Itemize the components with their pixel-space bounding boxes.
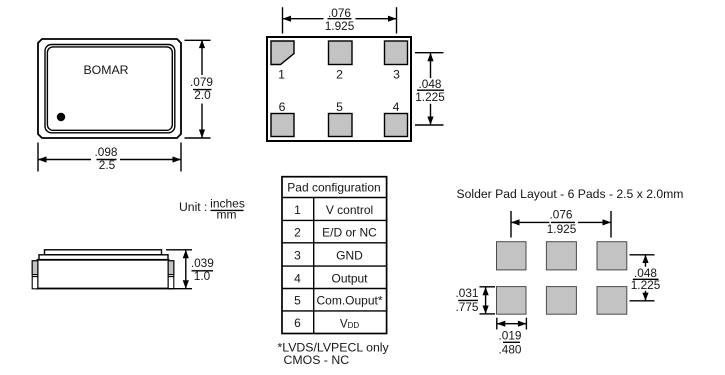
side view right castellation xyxy=(168,261,174,289)
dimension .079/2.0 (package height) xyxy=(185,40,213,138)
svg-text:.019: .019 xyxy=(499,329,522,343)
svg-text:1.925: 1.925 xyxy=(325,19,355,33)
svg-text:V control: V control xyxy=(326,203,373,217)
svg-text:6: 6 xyxy=(294,316,301,330)
svg-text:2.5: 2.5 xyxy=(99,158,116,172)
svg-text:2: 2 xyxy=(294,226,301,240)
svg-text:Output: Output xyxy=(331,271,368,285)
svg-text:.775: .775 xyxy=(456,300,479,314)
table row 5: Com.Ouput* xyxy=(294,294,383,308)
table row 3: GND xyxy=(294,248,363,262)
solder pad top-middle xyxy=(546,242,576,270)
dimension .076/1.925 (pad span, top view) xyxy=(283,6,397,34)
svg-text:1.925: 1.925 xyxy=(547,222,577,236)
pin 1 marker dot xyxy=(57,113,65,121)
svg-text:4: 4 xyxy=(294,271,301,285)
table row 2: E/D or NC xyxy=(294,226,377,240)
svg-text:1.0: 1.0 xyxy=(194,269,211,283)
svg-text:1.225: 1.225 xyxy=(631,278,661,292)
dimension .048/1.225 (solder pad row pitch) xyxy=(630,255,661,301)
svg-text:Com.Ouput*: Com.Ouput* xyxy=(316,294,382,308)
svg-text:.480: .480 xyxy=(499,343,522,357)
svg-text:E/D or NC: E/D or NC xyxy=(322,226,377,240)
solder pad bottom-right xyxy=(597,287,627,315)
dimension .098/2.5 (package width) xyxy=(38,143,181,172)
svg-text:Solder Pad Layout - 6 Pads - 2: Solder Pad Layout - 6 Pads - 2.5 x 2.0mm xyxy=(457,187,684,201)
package lid inner edge xyxy=(47,47,172,130)
pad 2 xyxy=(329,41,353,65)
svg-text:2.0: 2.0 xyxy=(194,88,211,102)
side view left castellation xyxy=(32,261,38,289)
svg-text:5: 5 xyxy=(336,100,343,114)
svg-text:BOMAR: BOMAR xyxy=(83,63,128,77)
svg-text:.076: .076 xyxy=(328,6,351,20)
solder pad bottom-left xyxy=(497,287,527,315)
dimension .048/1.225 (pad row pitch, top view) xyxy=(415,53,445,125)
table row 6: VDD xyxy=(294,316,359,330)
svg-text:.079: .079 xyxy=(190,75,213,89)
solder pad top-right xyxy=(597,242,627,270)
svg-text:5: 5 xyxy=(294,294,301,308)
svg-text:1.225: 1.225 xyxy=(415,90,445,104)
solder pad bottom-middle xyxy=(546,287,576,315)
svg-text:4: 4 xyxy=(393,100,400,114)
svg-text:CMOS - NC: CMOS - NC xyxy=(284,353,350,367)
table row 1: V control xyxy=(294,203,373,217)
dimension .031/.775 (solder pad height) xyxy=(456,286,495,314)
svg-text:mm: mm xyxy=(217,207,237,221)
pad 1 (chamfered) xyxy=(271,41,294,65)
pad 6 xyxy=(271,114,294,137)
side view lid top plate xyxy=(45,250,162,255)
svg-text:Unit :: Unit : xyxy=(179,200,207,214)
solder pad top-left xyxy=(497,242,527,270)
svg-text:1: 1 xyxy=(278,68,285,82)
package lid outer edge xyxy=(45,45,175,133)
svg-text:3: 3 xyxy=(294,248,301,262)
pad 5 xyxy=(329,114,353,137)
svg-text:GND: GND xyxy=(336,248,363,262)
dimension .039/1.0 (package thickness) xyxy=(166,250,214,289)
svg-text:2: 2 xyxy=(336,68,343,82)
svg-text:.031: .031 xyxy=(456,286,479,300)
svg-text:1: 1 xyxy=(294,203,301,217)
svg-text:.039: .039 xyxy=(191,256,214,270)
side view body xyxy=(38,260,169,289)
svg-text:3: 3 xyxy=(393,68,400,82)
side view lid lower plate xyxy=(39,255,168,260)
pad 4 xyxy=(385,114,408,137)
pad configuration table frame xyxy=(282,177,387,334)
package top view outline xyxy=(38,39,181,138)
dimension .019/.480 (solder pad width) xyxy=(497,318,527,357)
table row 4: Output xyxy=(294,271,368,285)
dimension .076/1.925 (solder pad span) xyxy=(511,208,611,238)
pad layout outline xyxy=(267,37,411,141)
svg-text:6: 6 xyxy=(279,100,286,114)
units note: Unit : inches/mm xyxy=(179,197,245,222)
svg-text:Pad configuration: Pad configuration xyxy=(287,180,380,194)
svg-text:.076: .076 xyxy=(550,208,573,222)
pad 3 xyxy=(385,41,408,65)
